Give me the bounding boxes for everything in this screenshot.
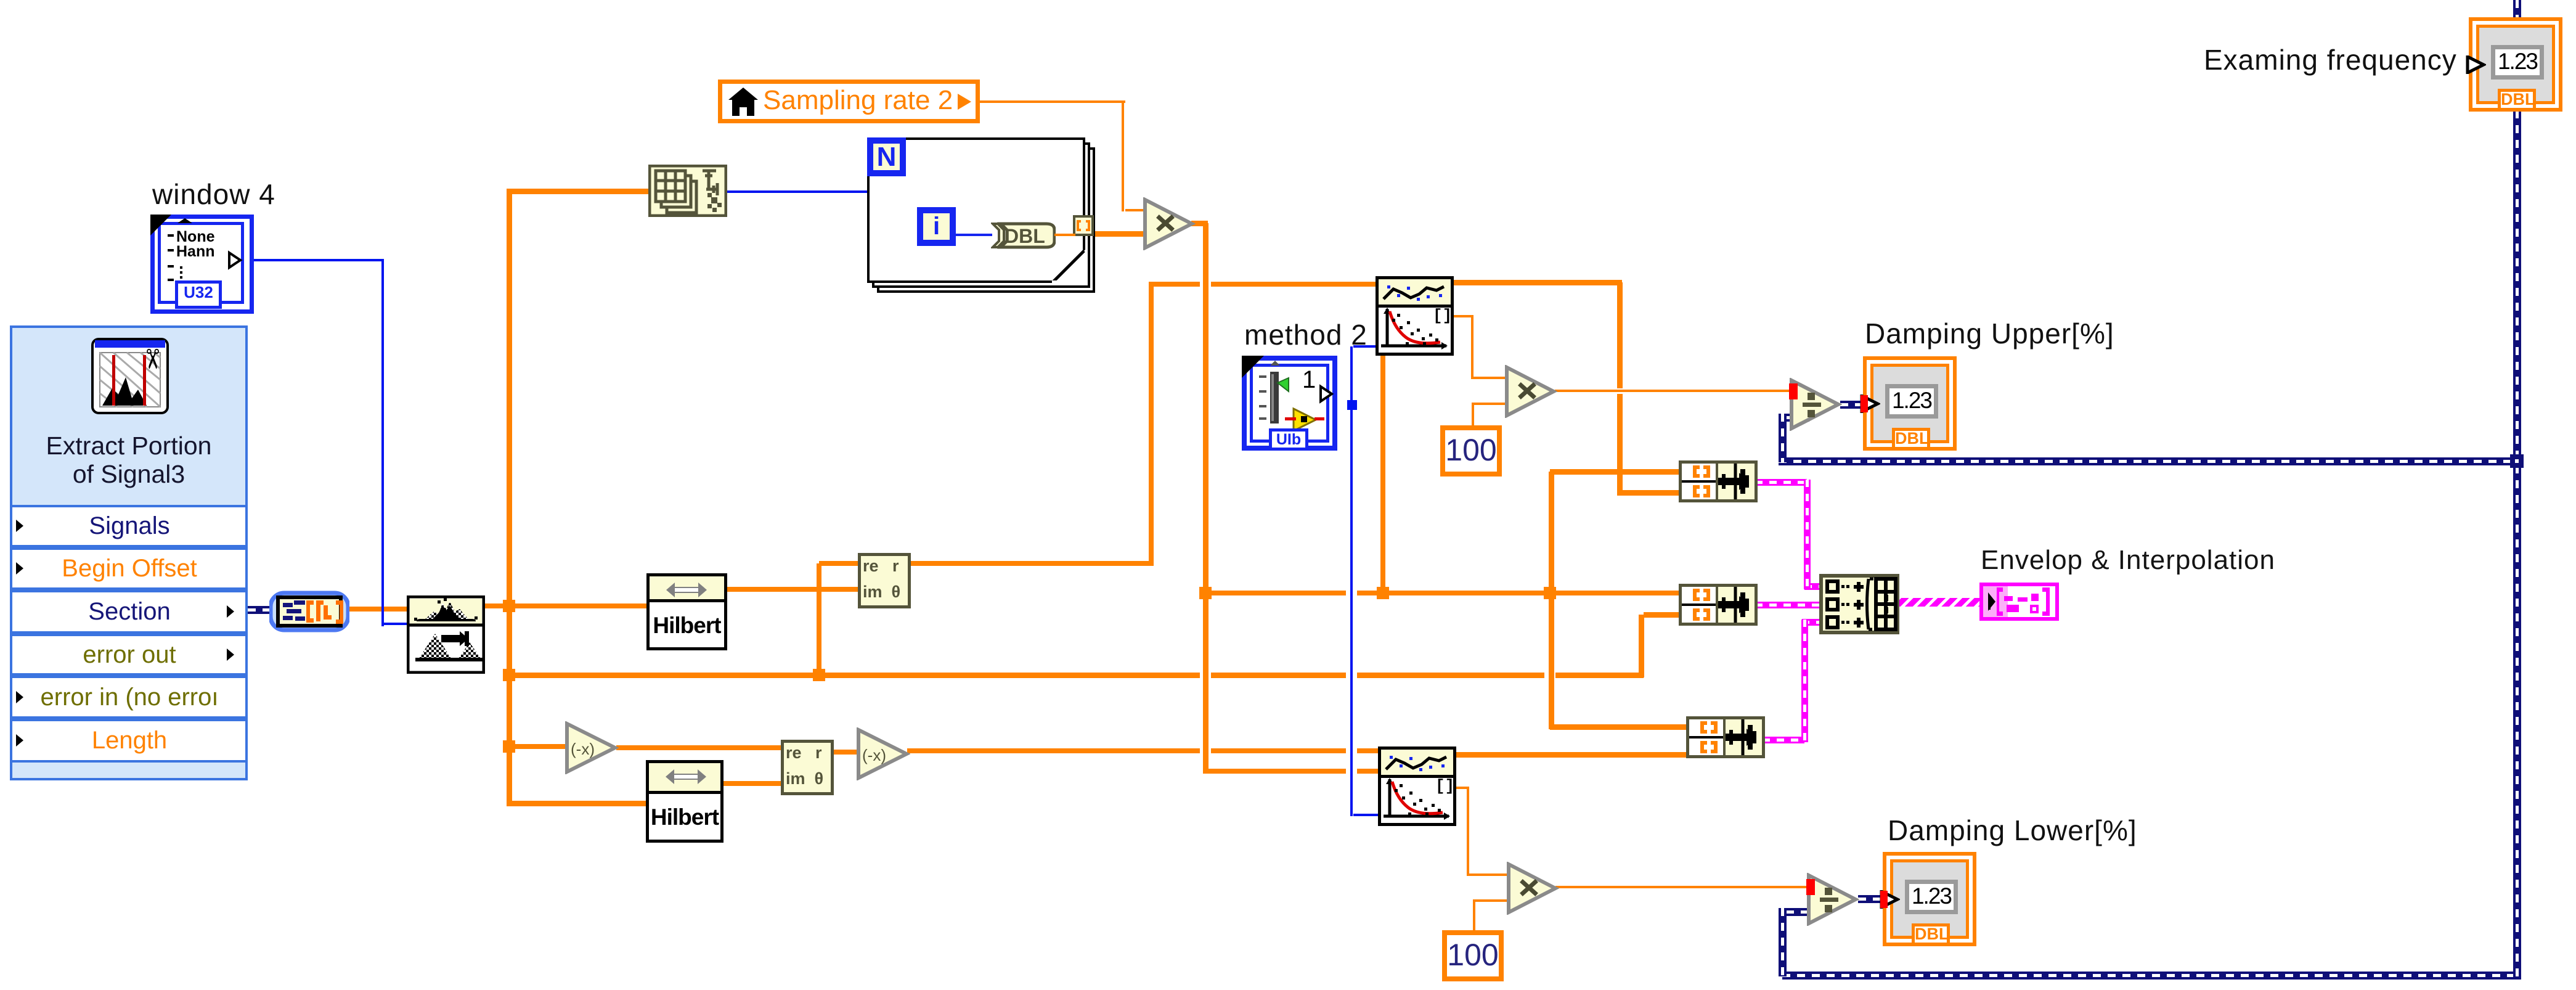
wire: interleave 3 magenta vertical [1801,620,1808,742]
wire: interleave 1 magenta vertical [1804,480,1811,589]
structure: for loop (stacked) [877,147,1095,293]
express VI icon [91,338,173,417]
wire: interleave 1 output [1755,479,1807,486]
node: interleave 1 (interleave arrays) [1679,460,1758,502]
node: multiply 3 [1506,862,1559,915]
wire: up-corner to curve-fit 1 signal input [1149,282,1378,287]
control: window 4 enum [150,215,245,305]
junction at (2244,962) [1377,587,1389,599]
wire: navy riser to divide 1 [1779,414,1787,462]
wire: negate 1 out to re/im 2 re input [616,745,783,750]
node: multiply 1 [1143,197,1196,250]
label: Damping Upper[%] [1865,317,2114,350]
svg-text:[]: [] [1435,778,1453,795]
wire: NET-A to interleave 1/3 riser [1549,472,1554,729]
node: interleave 3 (interleave arrays) [1686,716,1765,758]
wire: curve-fit 1 bottom input riser [1380,356,1385,595]
wire: sampling rate 2 control east [980,100,1125,103]
junction: navy tee at right edge [2510,454,2524,468]
label: Damping Lower[%] [1888,814,2137,847]
wire: bus riser to interleave 2 bottom input [1644,612,1681,618]
junction at (826,1095) [503,669,515,681]
svg-text:DBL: DBL [1005,225,1045,247]
wire: navy right-edge vertical [2513,110,2521,980]
wire: NET-A horizontal to middle interleave top input [1203,591,1681,595]
svg-text:Hann: Hann [176,243,215,260]
wire: riser to re/im 1 re input [819,561,860,566]
wire: re/im 1 r output east [908,561,1154,566]
junction at (1956,962) [1199,587,1212,599]
wire crossing gaps [1200,279,1211,290]
node: negate 1 [565,721,619,774]
coercion dot divide 1 [1789,383,1798,399]
node: divide 2 [1806,873,1859,926]
Examing frequency input arrow [2465,55,2486,74]
wire: navy stub into divide 1 lower input [1786,414,1809,422]
wire: curve-fit 1 top out vertical (lower) [1617,394,1623,495]
indicator: Damping Upper[%] [1863,356,1957,451]
node: curve fit 1 (exponential fit) [1376,276,1454,356]
node: negate 2 [856,727,910,780]
wire: method 2 to curve-fit 2 (blue) [1353,814,1380,816]
junction at (826,1211) [503,740,515,753]
junction at (1329,1095) [813,669,825,681]
wire: bus bottom elbow to Hilbert 2 [507,801,648,806]
wire: convert node to peak detector [349,607,409,612]
wire: to multiply 2 top input [1471,377,1507,379]
wire: multiply 1 output stub [1191,221,1208,226]
label: Envelop &amp; Interpolation [1981,545,2275,576]
wire: envelope bus horizontal [507,673,1644,678]
wire: Section dynamic-data to convert node [248,606,272,614]
wire: bus to negate 1 [507,744,568,749]
wire: negate 2 out to curve-fit 2 signal input [907,748,1380,753]
wire: into build-array input 3 [1802,619,1822,626]
wire: bus top elbow to matrix-size icon [507,189,651,194]
coercion dot divide 2 [1806,879,1815,895]
node: re/im 1 (re/im to r/theta) [858,553,911,608]
svg-text:(-x): (-x) [571,740,595,758]
wire: curve-fit 1 top out vertical (upper) [1617,282,1623,388]
wire: blue into peak detector [381,623,409,625]
wire: to multiply 3 top input [1467,873,1509,876]
label: method 2 [1244,318,1367,351]
loop tunnel [] [1073,215,1094,236]
wire: Hilbert 1 out to re/im 1 im input [725,587,860,592]
wire: navy stub above Examing frequency [2513,0,2521,18]
wire: re/im r to curve-fit riser [1149,284,1154,566]
wire: 100 riser lower [1473,901,1475,933]
junction: method 2 blue dot [1347,400,1357,410]
wire: i to DBL (blue, redrawn above loop bg) [955,234,992,236]
wire: riser to interleave 1 top input [1550,469,1681,475]
junction at (826,983) [503,600,515,612]
indicator: Envelop & Interpolation [1979,583,2059,621]
wire: curve-fit 2 [] output [1454,787,1469,789]
wire: divide 1 output to Damping Upper indicator [1840,401,1865,409]
node: interleave 2 (interleave arrays) [1679,584,1758,626]
svg-text:[]: [] [1433,308,1451,325]
junction at (2515,962) [1544,587,1556,599]
for loop i terminal [917,207,956,246]
wire: curve-fit 2 [] elbow vertical [1467,788,1469,876]
express VI: Extract Portion of Signal3 [10,325,248,780]
wire: navy riser to divide 2 [1779,908,1787,976]
node: curve fit 2 (exponential fit) [1378,747,1456,826]
indicator: Damping Lower[%] [1883,852,1976,946]
wire: DBL to tunnel (redrawn above loop bg) [1054,234,1075,236]
node: convert from dynamic data [269,589,349,634]
wire: method 2 blue vertical [1350,346,1353,816]
label: window 4 [152,178,275,211]
wire: peak detector out to Hilbert 1 (junction at bus) [481,603,649,608]
wire: window 4 output east [244,259,384,261]
wire: sampling rate vertical [1122,102,1124,211]
indicator: Examing frequency [2469,17,2562,112]
wire: main vertical bus [507,189,512,806]
svg-text:1: 1 [1302,366,1316,393]
wire: bus to re/im 1 re riser [817,563,821,677]
wire: DBL to loop tunnel [1054,234,1075,236]
wire: 100 to multiply 2 bottom input [1472,403,1507,405]
for loop N terminal [867,137,906,176]
svg-text:(-x): (-x) [862,746,886,764]
constant: 100 upper [1440,425,1502,477]
node: Hilbert transform 2 [646,760,723,843]
wire: i terminal to DBL conversion (blue) [955,234,992,236]
node: re/im 2 (re/im to r/theta) [781,740,834,795]
wire: sampling rate into multiply 1 top input [1125,209,1146,211]
constant: 100 lower [1442,930,1504,981]
wire: window 4 blue vertical [381,259,384,626]
node: Hilbert transform 1 [646,573,727,650]
wire: curve-fit 1 top output east [1451,280,1622,285]
wire: loop tunnel to multiply 1 bottom input [1093,231,1146,237]
wire: interleave 3 output [1763,737,1804,743]
control: Sampling rate 2 [718,80,980,123]
wire: navy Examing frequency branch to divide 1 [1779,457,2521,465]
wire: multiply 2 out to divide 1 [1555,390,1791,392]
wire: corner to interleave 1 bottom input [1617,490,1681,496]
wire: 100 riser upper [1472,404,1474,428]
wire: interleave 2 output to build-array input 2 [1755,602,1822,608]
label: Examing frequency [2204,43,2457,76]
wire: 100 to multiply 3 bottom input [1473,899,1509,902]
wire: riser to interleave 3 top input [1550,724,1689,730]
wire: matrix-size to for-loop N (blue) [725,190,870,193]
wire: Hilbert 2 out to re/im 2 im input [721,781,783,786]
node: matrix size [648,165,727,217]
wire: curve-fit 2 output to interleave 3 bottom input [1454,752,1689,758]
wire: NET-A bottom branch to curve-fit 2 time input [1203,769,1380,774]
node: multiply 2 [1504,365,1557,418]
wire: into build-array input 1 [1804,583,1822,590]
wire: method 2 to curve-fit 1 (blue) [1353,345,1378,348]
wire: multiply 3 out to divide 2 [1555,886,1809,888]
wire: build-array hatched magenta output to Envelop indicator [1897,598,1982,607]
node: peak detector [407,595,485,674]
conversion bullet DBL [991,222,1056,249]
svg-text:✂: ✂ [137,348,167,370]
wire: divide 2 output to Damping Lower indicator [1858,895,1885,903]
wire: navy bottom run [1782,972,2517,980]
wire: curve-fit 1 [] output [1451,315,1473,317]
wire: bus to interleave 2 riser [1639,615,1644,677]
node: divide 1 [1789,378,1842,431]
node: build array [1819,574,1899,634]
wire: multiply 1 output long vertical [1203,223,1209,774]
wire: navy stub into divide 2 lower input [1786,908,1809,916]
wire: curve-fit 1 [] elbow vertical [1471,316,1473,379]
control: method 2 [1242,356,1337,451]
wire: re/im 2 r out to negate 2 [831,750,859,755]
